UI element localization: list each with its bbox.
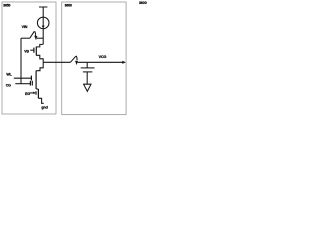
box 3650 <box>2 2 56 114</box>
svg-text:gnd: gnd <box>41 105 47 109</box>
arrowhead into box 3660 <box>122 61 126 64</box>
capacitor C1 (hold) <box>81 68 95 84</box>
transistor M3 (EG erase gate) <box>30 89 39 98</box>
power rail T <box>39 7 47 17</box>
svg-text:CG: CG <box>6 83 11 87</box>
wire M2 source to M3 drain <box>36 88 38 90</box>
label gnd <box>41 105 47 109</box>
label VIN <box>22 25 28 29</box>
capacitor CG coupling <box>15 81 32 86</box>
svg-text:WL: WL <box>6 72 12 76</box>
svg-text:3600: 3600 <box>139 1 147 5</box>
transistor M1 (VB cascode) <box>30 44 43 62</box>
label WL <box>6 72 12 76</box>
svg-text:3660: 3660 <box>65 4 72 8</box>
wire current source to switch node <box>42 29 44 45</box>
wire node down to WL transistor drain <box>36 62 43 70</box>
wire node down to hold capacitor <box>86 62 88 68</box>
label EG <box>25 92 30 96</box>
box 3660 <box>62 2 126 115</box>
label 3600 <box>139 1 147 5</box>
svg-text:VCG: VCG <box>99 55 107 59</box>
svg-text:VB: VB <box>24 50 29 54</box>
label 3660 <box>65 4 72 8</box>
label VCG <box>99 55 107 59</box>
switch S2 <box>70 56 78 65</box>
svg-text:3650: 3650 <box>3 4 10 8</box>
current source I1 <box>37 17 49 29</box>
label 3650 <box>3 4 10 8</box>
label VB <box>24 50 29 54</box>
switch S1 <box>21 31 43 40</box>
label CG <box>6 83 11 87</box>
ground <box>84 84 91 91</box>
svg-text:VIN: VIN <box>22 25 28 29</box>
transistor M2 (WL select gate + CG coupling) <box>14 71 36 89</box>
wire M3 source to gnd <box>38 98 43 103</box>
svg-text:EG: EG <box>25 92 30 96</box>
wire switch left contact down to WL line <box>20 38 22 83</box>
output node wire VCG <box>43 61 122 63</box>
